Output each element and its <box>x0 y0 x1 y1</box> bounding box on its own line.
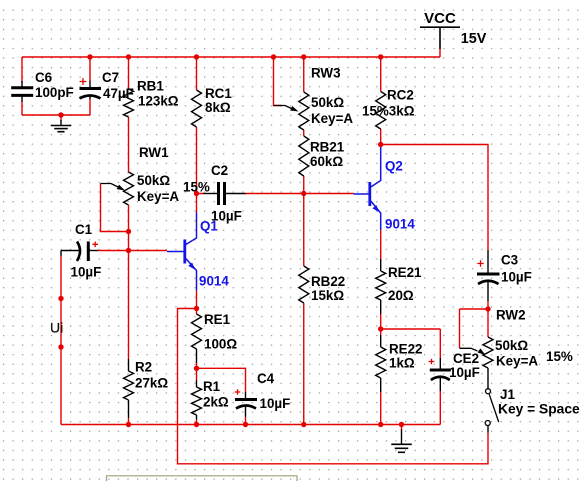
svg-text:RC2: RC2 <box>387 88 414 103</box>
svg-text:C3: C3 <box>501 253 518 268</box>
svg-text:VCC: VCC <box>424 10 456 27</box>
svg-text:RB21: RB21 <box>310 140 345 155</box>
svg-text:RE22: RE22 <box>389 342 423 357</box>
svg-text:RE1: RE1 <box>204 312 231 327</box>
svg-text:15kΩ: 15kΩ <box>311 288 344 303</box>
svg-text:R1: R1 <box>203 379 221 394</box>
svg-text:100pF: 100pF <box>35 85 74 100</box>
svg-text:C2: C2 <box>211 163 228 178</box>
svg-text:50kΩ: 50kΩ <box>137 173 170 188</box>
svg-text:C6: C6 <box>35 70 52 85</box>
svg-text:10µF: 10µF <box>260 396 291 411</box>
svg-text:R2: R2 <box>135 360 152 375</box>
svg-text:123kΩ: 123kΩ <box>138 94 179 109</box>
svg-text:CE2: CE2 <box>453 351 479 366</box>
svg-text:100Ω: 100Ω <box>204 337 237 352</box>
svg-text:1kΩ: 1kΩ <box>389 356 415 371</box>
svg-text:Ui: Ui <box>50 319 63 335</box>
svg-text:C4: C4 <box>257 371 275 386</box>
svg-text:20Ω: 20Ω <box>388 288 414 303</box>
svg-text:Key = Space: Key = Space <box>498 402 580 417</box>
svg-text:J1: J1 <box>500 387 515 402</box>
svg-text:RE21: RE21 <box>388 265 422 280</box>
svg-text:RC1: RC1 <box>205 86 232 101</box>
svg-text:50kΩ: 50kΩ <box>495 338 528 353</box>
svg-text:8kΩ: 8kΩ <box>205 100 231 115</box>
svg-text:15%: 15% <box>183 180 210 195</box>
svg-text:Key=A: Key=A <box>496 354 538 369</box>
svg-text:47µF: 47µF <box>103 86 134 101</box>
svg-text:Key=A: Key=A <box>137 189 179 204</box>
svg-text:15%: 15% <box>546 349 573 364</box>
svg-text:Q2: Q2 <box>385 159 403 174</box>
svg-text:27kΩ: 27kΩ <box>135 376 168 391</box>
svg-text:Q1: Q1 <box>200 219 218 234</box>
svg-text:Key=A: Key=A <box>311 111 353 126</box>
svg-text:10µF: 10µF <box>501 270 532 285</box>
svg-text:C7: C7 <box>102 70 119 85</box>
svg-text:15%3kΩ: 15%3kΩ <box>362 104 415 119</box>
svg-text:2kΩ: 2kΩ <box>203 395 229 410</box>
svg-text:RW2: RW2 <box>496 308 526 323</box>
svg-text:RB1: RB1 <box>137 79 164 94</box>
svg-text:9014: 9014 <box>385 217 415 232</box>
svg-text:9014: 9014 <box>199 274 229 289</box>
svg-text:C1: C1 <box>75 222 93 237</box>
svg-text:50kΩ: 50kΩ <box>311 95 344 110</box>
svg-text:10µF: 10µF <box>449 365 480 380</box>
svg-text:60kΩ: 60kΩ <box>310 154 343 169</box>
svg-text:RB22: RB22 <box>311 274 345 289</box>
svg-text:15V: 15V <box>461 31 487 47</box>
svg-text:RW1: RW1 <box>139 145 169 160</box>
svg-text:10µF: 10µF <box>71 265 102 280</box>
svg-text:RW3: RW3 <box>311 66 341 81</box>
